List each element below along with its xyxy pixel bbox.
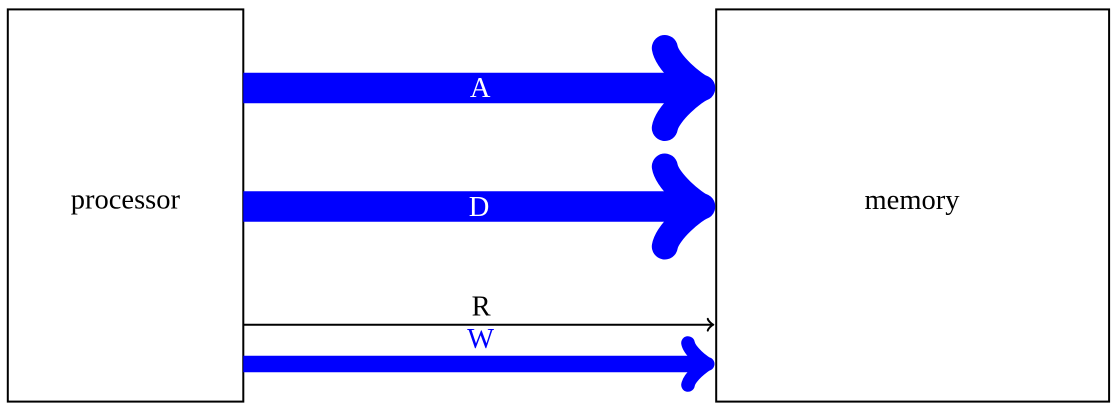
svg-text:W: W xyxy=(467,324,494,355)
svg-text:processor: processor xyxy=(71,184,181,215)
write wire W xyxy=(243,343,707,385)
memory box xyxy=(716,9,1109,401)
address bus wire A xyxy=(243,48,702,128)
memory label xyxy=(865,185,961,216)
svg-text:R: R xyxy=(472,292,491,323)
svg-text:D: D xyxy=(469,192,490,223)
processor box xyxy=(8,9,244,401)
label R xyxy=(472,292,491,323)
data bus wire D xyxy=(243,167,702,247)
read wire R xyxy=(243,319,713,331)
label D xyxy=(469,192,490,223)
svg-text:memory: memory xyxy=(865,185,961,216)
svg-text:A: A xyxy=(470,73,491,104)
label W xyxy=(467,324,494,355)
processor label xyxy=(71,184,181,215)
label A xyxy=(470,73,491,104)
